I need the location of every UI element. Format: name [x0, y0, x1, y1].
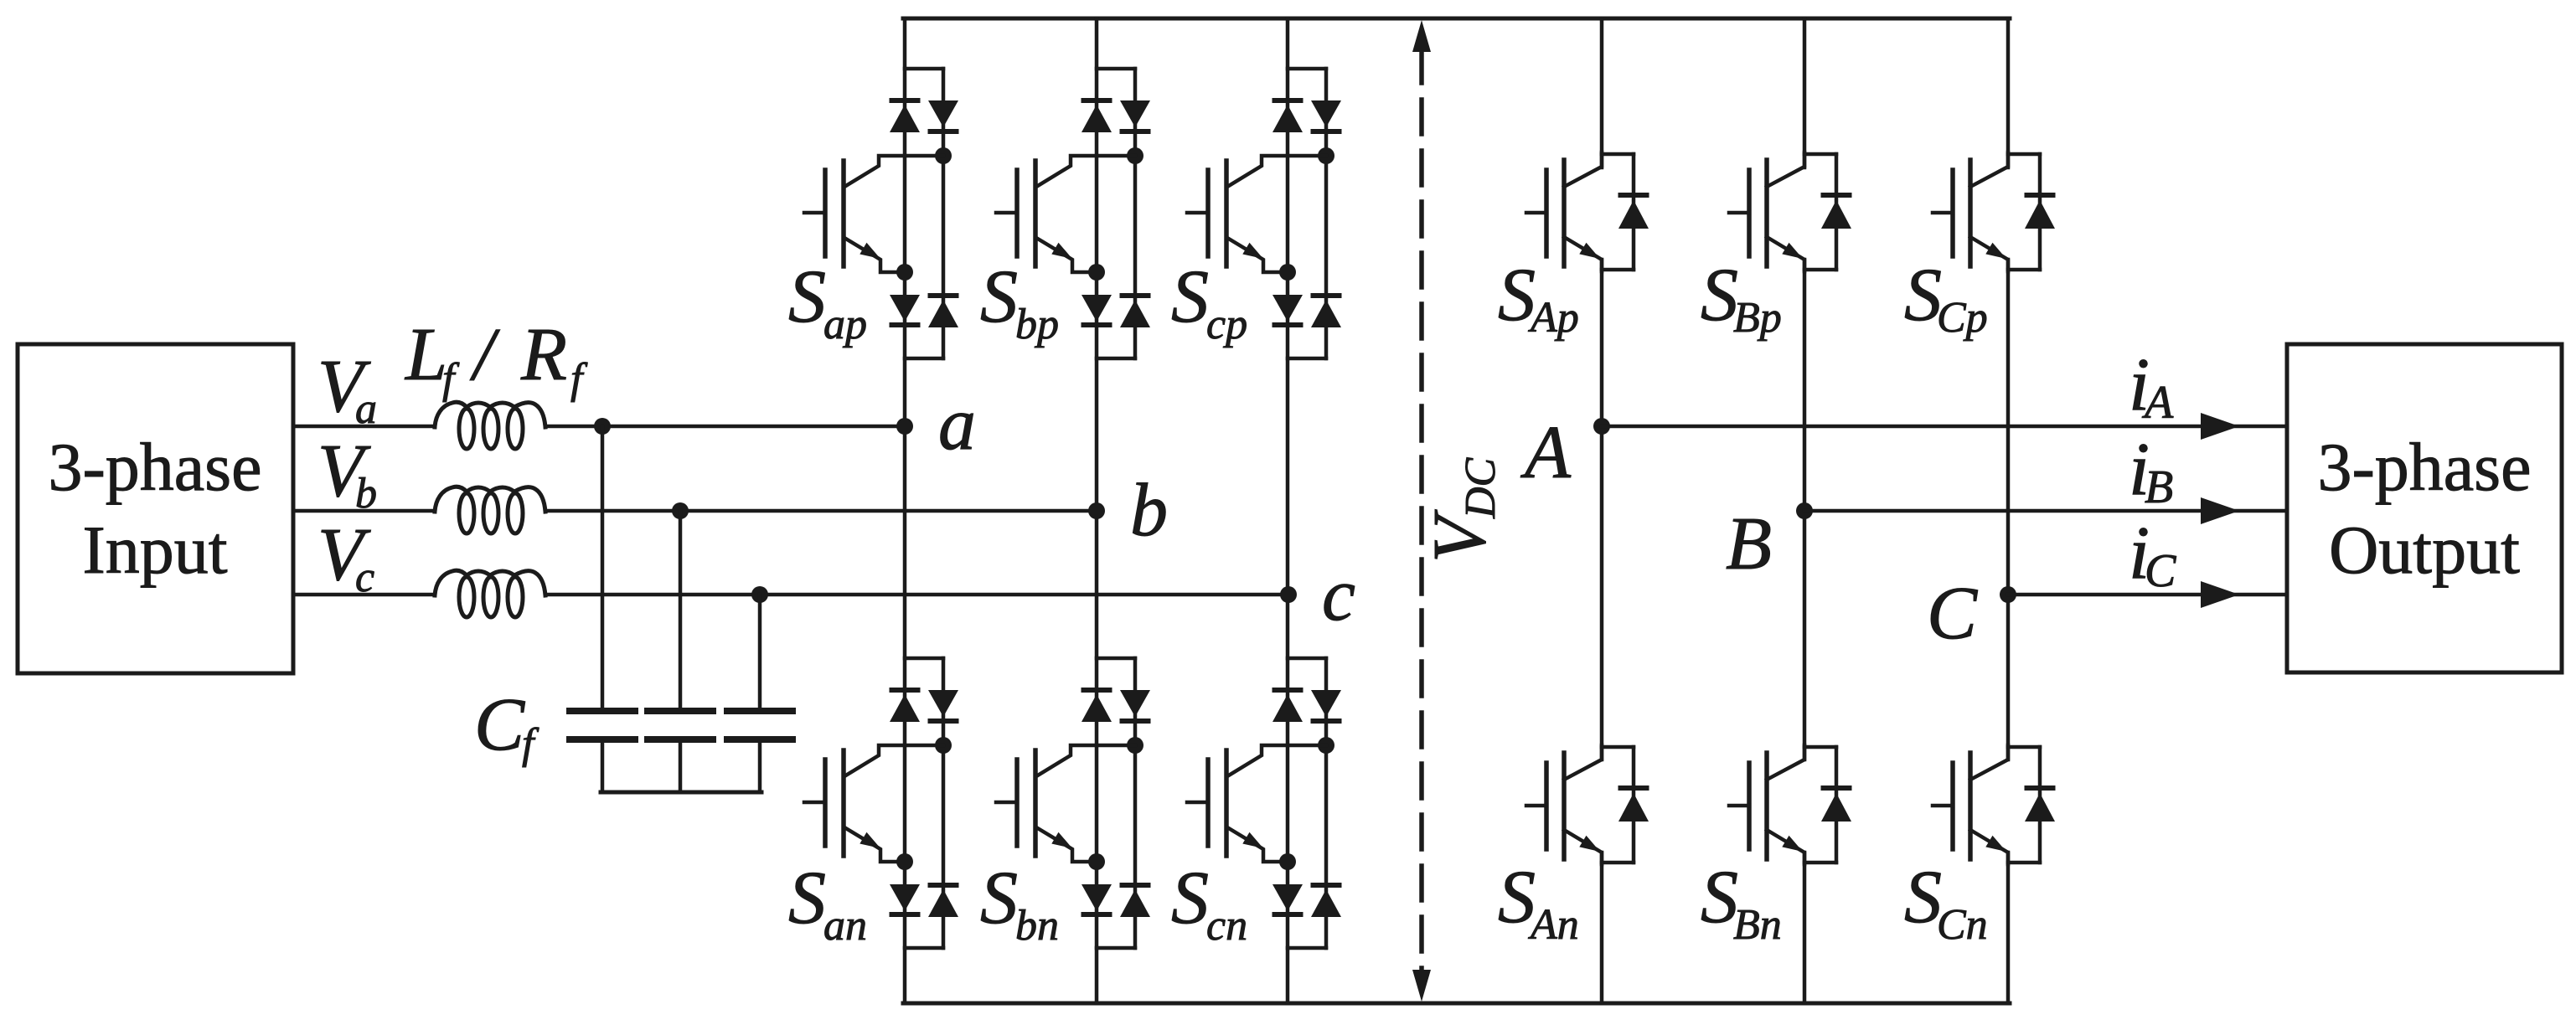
svg-text:S: S: [788, 857, 826, 940]
svg-text:An: An: [1528, 901, 1579, 949]
3-phase output load box: [2287, 344, 2562, 672]
wire phase b to rectifier leg: [545, 509, 1097, 513]
svg-text:bn: bn: [1015, 902, 1059, 950]
svg-text:DC: DC: [1457, 456, 1505, 519]
rectifier leg b vertical: [1095, 18, 1099, 1003]
inverter leg C vertical (upper / middle / lower segments): [2006, 18, 2011, 1003]
svg-text:c: c: [1322, 554, 1355, 636]
inductor Lf phase a: [435, 402, 545, 449]
bottom DC rail N: [903, 1002, 2010, 1006]
svg-text:B: B: [2145, 461, 2173, 513]
label SCp: [1904, 254, 1988, 342]
label SBp: [1701, 254, 1782, 342]
bidirectional switch Sbn (IGBT + 4-diode bridge): [996, 658, 1150, 948]
node a: [896, 383, 976, 466]
bidirectional switch San (IGBT + 4-diode bridge): [804, 658, 958, 948]
svg-text:3-phase: 3-phase: [48, 429, 261, 505]
svg-text:b: b: [1130, 469, 1168, 552]
capacitor common bottom bar: [601, 791, 761, 795]
svg-text:Ap: Ap: [1528, 294, 1579, 342]
label Vc: [317, 513, 374, 601]
svg-text:Cp: Cp: [1937, 294, 1988, 342]
wire iA output line with arrow: [1602, 413, 2287, 440]
wire iB output line with arrow: [1804, 497, 2287, 524]
IGBT switch SAn with antiparallel diode: [1526, 745, 1649, 864]
svg-text:Bn: Bn: [1733, 901, 1782, 949]
svg-text:S: S: [980, 857, 1018, 940]
label SBn: [1701, 856, 1782, 949]
3-phase input source box: [18, 344, 293, 673]
svg-text:b: b: [355, 470, 377, 518]
label Sbp: [980, 255, 1059, 348]
IGBT switch SCp with antiparallel diode: [1933, 152, 2055, 271]
inductor Lf phase b: [435, 487, 545, 533]
svg-text:Output: Output: [2329, 512, 2520, 588]
wire phase a to rectifier leg: [545, 425, 905, 429]
inductor Lf phase c: [435, 570, 545, 617]
inverter leg B vertical (upper / middle / lower segments): [1803, 18, 1807, 1003]
svg-text:an: an: [823, 902, 867, 950]
label SAn: [1498, 856, 1579, 949]
label Va: [317, 345, 377, 433]
label Sbn: [980, 857, 1059, 950]
top DC rail P: [903, 17, 2010, 21]
capacitor Cf phase b: [648, 502, 713, 792]
bidirectional switch Scn (IGBT + 4-diode bridge): [1187, 658, 1341, 948]
svg-text:C: C: [2145, 545, 2176, 597]
svg-text:L: L: [404, 313, 447, 396]
svg-text:S: S: [1171, 255, 1209, 338]
label Scp: [1171, 255, 1247, 348]
svg-text:Bp: Bp: [1733, 294, 1782, 342]
rectifier leg c vertical: [1286, 18, 1290, 1003]
capacitor Cf phase c: [727, 586, 792, 792]
svg-text:ap: ap: [823, 301, 867, 348]
bidirectional switch Scp (IGBT + 4-diode bridge): [1187, 69, 1341, 358]
node C: [1927, 572, 2016, 655]
svg-text:cp: cp: [1206, 301, 1247, 348]
svg-text:C: C: [474, 683, 525, 766]
wire iC output line with arrow: [2008, 581, 2287, 608]
inverter leg A vertical (upper / middle / lower segments): [1600, 18, 1604, 1003]
VDC dashed line with arrows: [1412, 20, 1431, 1002]
node A: [1520, 411, 1610, 494]
IGBT switch SBp with antiparallel diode: [1729, 152, 1851, 271]
svg-text:C: C: [1927, 572, 1978, 655]
node B: [1726, 502, 1813, 585]
label Lf / Rf: [404, 313, 588, 403]
label iA: [2129, 343, 2174, 429]
wire Vc from input box to filter inductor: [293, 593, 435, 597]
label SCn: [1904, 856, 1988, 949]
svg-text:B: B: [1726, 502, 1772, 585]
label iB: [2129, 428, 2173, 513]
svg-text:c: c: [355, 554, 374, 601]
svg-text:cn: cn: [1206, 902, 1247, 950]
svg-text:A: A: [2141, 377, 2174, 429]
wire Va from input box to filter inductor: [293, 425, 435, 429]
label Scn: [1171, 857, 1247, 950]
label VDC: [1418, 456, 1505, 563]
svg-text:S: S: [1171, 857, 1209, 940]
wire phase c to rectifier leg: [545, 593, 1288, 597]
wire Vb from input box to filter inductor: [293, 509, 435, 513]
capacitor Cf phase a: [570, 418, 635, 792]
node b: [1088, 469, 1168, 552]
svg-text:3-phase: 3-phase: [2317, 429, 2531, 505]
label SAp: [1498, 254, 1579, 342]
IGBT switch SBn with antiparallel diode: [1729, 745, 1851, 864]
label iC: [2129, 512, 2176, 597]
node c: [1280, 554, 1355, 636]
label Vb: [317, 430, 377, 518]
svg-text:bp: bp: [1015, 301, 1059, 348]
bidirectional switch Sbp (IGBT + 4-diode bridge): [996, 69, 1150, 358]
svg-text:Cn: Cn: [1937, 901, 1988, 949]
svg-text:S: S: [788, 255, 826, 338]
rectifier leg a vertical: [903, 18, 907, 1003]
bidirectional switch Sap (IGBT + 4-diode bridge): [804, 69, 958, 358]
svg-text:a: a: [938, 383, 976, 466]
svg-text:S: S: [980, 255, 1018, 338]
label Sap: [788, 255, 867, 348]
label San: [788, 857, 867, 950]
svg-text:a: a: [355, 385, 377, 433]
svg-text:Input: Input: [82, 512, 227, 588]
svg-text:A: A: [1520, 411, 1572, 494]
label Cf: [474, 683, 539, 768]
IGBT switch SCn with antiparallel diode: [1933, 745, 2055, 864]
IGBT switch SAp with antiparallel diode: [1526, 152, 1649, 271]
svg-text:R: R: [520, 313, 567, 396]
